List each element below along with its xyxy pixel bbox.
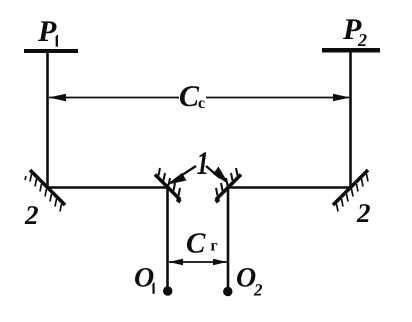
leader arrow from 1 to right mirror [206,166,229,185]
leader arrow from 1 to left mirror [166,166,196,185]
label P1 [38,21,58,46]
hatching mirror 1 left [159,168,181,196]
eyepiece node O2 dot [223,287,232,296]
label 2 right [357,204,370,222]
mirror 1 left (central) [155,175,180,200]
wire: left vertical from P1 bar to mirror 2 [46,52,49,188]
label 2 left [25,206,38,224]
mirror 2 right (45 deg) [333,170,368,205]
mirror 1 right (central) [216,175,241,200]
arrowhead Cc right [333,94,350,101]
arrowhead Cg left [169,259,184,265]
dimension arrow Cc left segment [49,97,179,99]
arrowhead Cg right [213,259,227,265]
label Cc [180,86,205,108]
arrowhead Cc left [49,94,67,101]
hatching mirror 1 right [216,168,238,196]
objective slit bar left [24,49,78,53]
objective slit bar right [322,48,380,53]
label O1 [135,268,155,294]
hatching mirror 2 right [337,174,369,212]
label P2 [343,19,367,46]
wire: left eyepiece vertical [166,188,169,290]
wire: horizontal left from mirror 2 to mirror 1 [47,186,168,189]
wire: right vertical from P2 bar to mirror 2 [349,52,352,188]
ink hook at lower end of mirror 1 right [215,196,221,204]
dimension arrow Cg [169,261,227,263]
label 1 [197,152,206,174]
wire: horizontal right from mirror 1 to mirror 2 [228,186,351,189]
dimension arrow Cc right segment [206,97,349,99]
mirror 2 left (45 deg) [30,170,65,205]
wire: right eyepiece vertical [227,188,230,290]
label O2 [237,268,262,296]
eyepiece node O1 dot [163,286,172,295]
hatching mirror 2 left [25,174,62,212]
ink hook at lower end of mirror 1 left [176,196,182,204]
label Cg [187,233,217,253]
